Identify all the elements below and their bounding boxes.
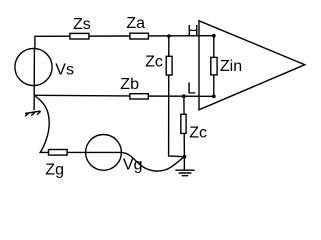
wire Zin rail <box>213 36 215 97</box>
svg-text:Vg: Vg <box>123 156 143 173</box>
junction dot L-Zc lower <box>182 94 186 98</box>
resistor Zb <box>130 94 148 99</box>
junction dot H-Zin <box>212 34 216 38</box>
ground left (sketchy rake under Vs) <box>25 95 41 116</box>
wire Zc upper rail (top wire down past L to bottom junction) <box>169 36 185 157</box>
resistor Za <box>130 33 149 39</box>
wire sag (Vg to bottom junction) <box>121 152 184 171</box>
wire top (Vs corner to H rail) <box>35 36 214 48</box>
wire middle L (junction to Zin rail) <box>34 95 213 96</box>
resistor Zin <box>211 57 217 75</box>
resistor Zc lower <box>181 114 186 133</box>
wire Zg to Vg (diameter through Vg) <box>67 151 121 153</box>
svg-text:Za: Za <box>126 15 145 32</box>
resistor Zs <box>70 33 89 39</box>
resistor Zc upper <box>166 56 172 75</box>
wire squiggle (junction down to Zg) <box>34 96 49 153</box>
junction dot bottom ground <box>183 155 187 159</box>
wire Zc lower rail <box>183 96 186 157</box>
svg-text:H: H <box>187 23 199 40</box>
svg-text:Zg: Zg <box>45 161 64 178</box>
ground earth right <box>175 157 194 176</box>
svg-text:L: L <box>187 80 196 97</box>
junction dot Zc top <box>167 34 171 38</box>
svg-text:Zc: Zc <box>189 124 207 141</box>
svg-text:Zb: Zb <box>120 76 139 93</box>
source Vg <box>86 135 122 171</box>
svg-text:Zin: Zin <box>220 58 242 75</box>
wire left rail (through Vs down to junction) <box>33 48 35 95</box>
resistor Zg <box>49 150 68 156</box>
op-amp triangle <box>199 21 305 110</box>
source Vs <box>15 48 52 85</box>
svg-text:Zs: Zs <box>73 16 91 33</box>
svg-text:Vs: Vs <box>55 61 74 78</box>
junction dot L-Zin <box>212 94 216 98</box>
svg-text:Zc: Zc <box>145 53 163 70</box>
